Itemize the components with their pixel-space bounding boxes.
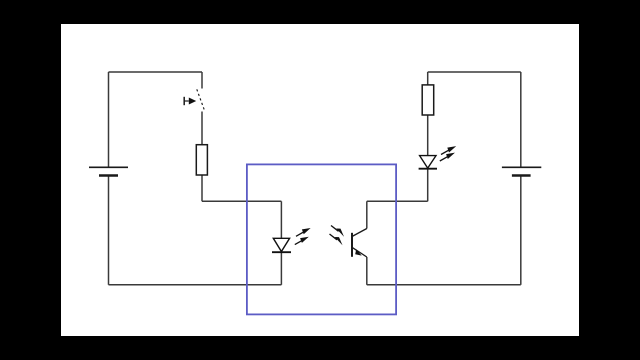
- LED D1: [272, 238, 291, 252]
- optocoupler box U1: [247, 164, 396, 314]
- wire R1 to corner: [201, 175, 203, 201]
- resistor R1: [196, 145, 207, 175]
- wire R2 to LED D2: [427, 115, 429, 156]
- wire right top horizontal: [428, 71, 521, 73]
- battery B2: [502, 167, 541, 175]
- LED D2: [419, 156, 437, 169]
- LED D1 emission arrows: [295, 228, 311, 245]
- wire R2 top stub: [427, 72, 429, 85]
- wire right vertical battery to bottom: [520, 176, 522, 285]
- wire corner to LED D1 anode: [202, 200, 281, 202]
- wire bottom-right horizontal: [367, 284, 521, 286]
- wire D1 cathode vertical: [280, 252, 282, 285]
- wire D2 cathode down: [427, 169, 429, 202]
- wire D2 to phototransistor collector: [367, 200, 428, 202]
- switch S1: [184, 89, 205, 112]
- phototransistor Q1: [352, 229, 367, 258]
- LED D2 emission arrows: [440, 146, 456, 161]
- wire right vertical top to battery: [520, 72, 522, 167]
- wire collector vertical: [366, 201, 368, 228]
- resistor R2: [422, 85, 434, 115]
- battery B1: [89, 167, 128, 175]
- wire bottom-left horizontal: [109, 284, 282, 286]
- wire switch to resistor R1: [201, 112, 203, 145]
- wire switch top stub: [201, 72, 203, 89]
- wire battery to bottom-left corner: [108, 176, 110, 285]
- photon arrows into Q1: [330, 226, 345, 246]
- wire D1 anode vertical: [280, 201, 282, 238]
- wire emitter vertical: [366, 257, 368, 285]
- wire left vertical to battery: [108, 72, 110, 167]
- wire top-left horizontal: [109, 71, 203, 73]
